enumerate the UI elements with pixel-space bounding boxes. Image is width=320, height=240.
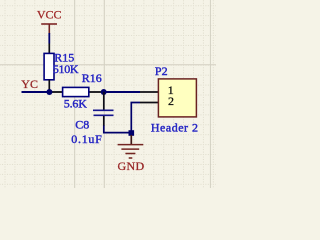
pin: R15 pin 2: [48, 80, 50, 92]
svg-text:GND: GND: [118, 159, 145, 173]
pin: C8 pin 1 (top lead): [103, 92, 105, 110]
ground GND symbol bars: [118, 145, 144, 158]
svg-text:2: 2: [168, 94, 174, 108]
power VCC: [37, 7, 62, 34]
pin: R16 pin 1: [49, 91, 62, 93]
capacitor C8: [93, 110, 114, 115]
svg-text:YC: YC: [21, 77, 38, 91]
pin: P2 pin 2 wire: [140, 102, 158, 104]
wire VCC to R15: [48, 33, 50, 44]
resistor R16: [63, 87, 89, 96]
svg-text:P2: P2: [155, 64, 168, 78]
wire P2 pin2 to GND node: [131, 103, 140, 134]
svg-text:C8: C8: [75, 117, 89, 131]
svg-text:5.6K: 5.6K: [64, 96, 87, 110]
wire net YC horizontal: [22, 91, 50, 93]
pin: R16 pin 2: [89, 91, 104, 93]
junction GND node (square): [129, 130, 135, 136]
svg-text:VCC: VCC: [37, 7, 62, 21]
junction at R15/YC: [46, 89, 52, 95]
pin: C8 pin 2 (bottom lead): [103, 116, 105, 126]
connector P2 (Header 2): [158, 79, 196, 117]
wire R16 to P2 pin 1: [104, 91, 140, 93]
grid major line artifacts: [0, 0, 216, 188]
svg-text:510K: 510K: [53, 62, 79, 76]
wire GND stem: [130, 135, 132, 144]
svg-text:R16: R16: [82, 71, 102, 85]
resistor R15: [44, 53, 54, 79]
pin: R15 pin 1: [48, 44, 50, 54]
junction at R16/C8: [101, 89, 107, 95]
pin: P2 pin 1 wire: [140, 91, 158, 93]
svg-text:Header 2: Header 2: [151, 121, 199, 135]
wire C8 to GND node: [104, 126, 132, 133]
svg-text:0.1uF: 0.1uF: [71, 132, 102, 146]
